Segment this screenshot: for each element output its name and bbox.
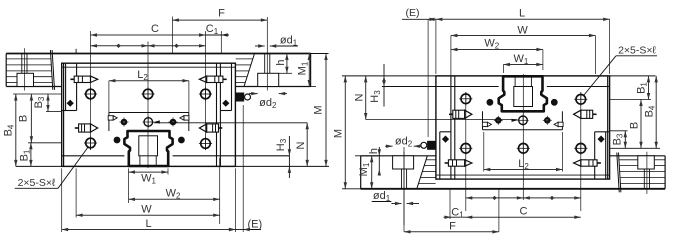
top row mounting holes bbox=[86, 89, 96, 99]
svg-text:W: W bbox=[517, 24, 528, 36]
right baseline bbox=[342, 75, 656, 77]
grease nipples (side) bbox=[74, 76, 90, 82]
dim L2 left bbox=[109, 80, 189, 82]
left pad bbox=[65, 63, 67, 110]
left view mechanical bbox=[6, 17, 310, 166]
rail left segment (side view) bbox=[664, 156, 666, 189]
dim W2 bbox=[129, 198, 220, 200]
svg-text:h: h bbox=[275, 59, 287, 65]
dim M right bbox=[344, 76, 346, 189]
baseline bbox=[16, 165, 329, 167]
right pad bottom bbox=[220, 110, 231, 112]
block bottom line (front view) bbox=[547, 86, 610, 88]
rail mounting hole (left, counterbored from below) bbox=[649, 169, 651, 189]
dim C1 bbox=[221, 33, 228, 36]
svg-text:h: h bbox=[368, 148, 380, 154]
inner recess rectangle bbox=[109, 112, 189, 114]
dim N right bbox=[365, 76, 367, 120]
svg-text:2×5-S×ℓ: 2×5-S×ℓ bbox=[18, 177, 56, 189]
end cap screws small row bbox=[121, 119, 128, 126]
end-mounted nipple right (square+circle) bbox=[236, 93, 245, 102]
dim L2 right bbox=[484, 169, 563, 171]
rail break line (left, doubled) bbox=[50, 50, 52, 90]
rail right segment (side view, with break) bbox=[361, 155, 436, 157]
dim M bbox=[325, 54, 327, 167]
svg-text:F: F bbox=[449, 220, 456, 232]
svg-text:M: M bbox=[313, 105, 325, 114]
rail right segment (side view, with break) bbox=[236, 86, 311, 88]
dim C1 right bbox=[444, 216, 466, 218]
extension lines top bbox=[90, 31, 92, 150]
dim h bbox=[286, 54, 288, 74]
break line (right) bbox=[417, 156, 428, 189]
dim W2 right bbox=[451, 49, 543, 51]
dim W bbox=[76, 214, 220, 216]
dim C right bbox=[466, 216, 581, 218]
svg-text:2×5-S×ℓ: 2×5-S×ℓ bbox=[618, 44, 656, 56]
hole centerline (left) bbox=[23, 48, 25, 90]
svg-text:(E): (E) bbox=[247, 219, 262, 231]
dim N bbox=[306, 123, 308, 167]
dim H3 bbox=[288, 136, 290, 178]
svg-text:F: F bbox=[218, 8, 225, 20]
dim B4 right bbox=[655, 76, 657, 148]
block right end internal verticals bbox=[216, 63, 218, 166]
counterbored hole (right, in section) bbox=[264, 54, 266, 74]
center small hole with leader arrow bbox=[519, 116, 528, 125]
rail break line (left, doubled) bbox=[619, 153, 621, 193]
rail shank inner lines bbox=[514, 87, 533, 107]
end cap screws small row bbox=[544, 117, 551, 124]
right view mechanical (180deg rotated copy) bbox=[361, 76, 665, 225]
dim W1 right bbox=[503, 64, 542, 66]
inner recess rectangle bbox=[483, 129, 563, 131]
dim B3 right bbox=[624, 131, 626, 149]
break line (right) bbox=[244, 54, 255, 87]
dim M1 right bbox=[371, 156, 373, 189]
dim B3 bbox=[47, 94, 49, 112]
dim L right bbox=[436, 18, 610, 20]
dim B right bbox=[640, 100, 642, 149]
grease nipples (side) bbox=[581, 160, 597, 166]
dim F bbox=[172, 19, 267, 21]
dim F right bbox=[404, 231, 499, 233]
dim W1 bbox=[129, 171, 169, 173]
right pad bottom bbox=[440, 131, 451, 133]
counterbored hole (right, in section) bbox=[406, 169, 408, 189]
retainer dots bbox=[551, 99, 558, 106]
svg-text:(E): (E) bbox=[406, 7, 420, 19]
svg-text:N: N bbox=[354, 93, 366, 101]
rail left segment (side view) bbox=[5, 54, 7, 87]
pad diamonds bbox=[598, 136, 605, 143]
dim h right bbox=[378, 147, 380, 175]
pitch row right bbox=[466, 197, 581, 199]
svg-text:M: M bbox=[333, 129, 345, 138]
dim phi-d2 bbox=[249, 93, 258, 95]
bottom row mounting holes bbox=[576, 95, 586, 105]
dim L bbox=[62, 229, 236, 231]
retainer dots bbox=[114, 137, 121, 144]
pad diamonds bbox=[67, 100, 74, 107]
dim B1 right bbox=[648, 76, 650, 100]
svg-text:C: C bbox=[151, 23, 159, 35]
svg-text:B: B bbox=[629, 122, 641, 129]
svg-text:N: N bbox=[295, 141, 307, 149]
rail mounting hole (left, counterbored from below) bbox=[21, 54, 23, 74]
rail cross-section profile (front view) bbox=[124, 131, 172, 166]
rail top edge line bbox=[361, 188, 665, 190]
top row mounting holes bbox=[576, 144, 586, 154]
left pad bbox=[605, 132, 607, 179]
svg-text:L: L bbox=[519, 8, 525, 20]
block right end internal verticals bbox=[454, 76, 456, 179]
dim C bbox=[91, 34, 206, 36]
svg-text:B: B bbox=[18, 115, 30, 122]
hole centerline (left) bbox=[646, 152, 648, 194]
dim B bbox=[30, 94, 32, 143]
svg-text:L: L bbox=[145, 218, 151, 230]
center small hole with leader arrow bbox=[144, 118, 153, 127]
dim B4 bbox=[15, 94, 17, 166]
dim M1 bbox=[308, 54, 310, 87]
right extension lines bbox=[403, 147, 405, 232]
rail cross-section profile (front view) bbox=[499, 76, 547, 111]
dim H3 right bbox=[383, 64, 385, 107]
rail top edge line bbox=[6, 53, 310, 55]
rail shank inner lines bbox=[139, 136, 158, 156]
hole pitch row bbox=[91, 45, 206, 47]
dim phi-d2 right bbox=[385, 145, 393, 147]
svg-text:C: C bbox=[520, 206, 528, 218]
dim (E) bbox=[235, 229, 243, 231]
block outer rectangle bbox=[62, 63, 236, 166]
svg-text:W: W bbox=[141, 204, 152, 216]
end-mounted nipple right (square+circle) bbox=[427, 141, 436, 150]
block outer rectangle bbox=[436, 76, 610, 179]
dim B1 bbox=[30, 143, 32, 167]
dim phi-d1 bbox=[255, 45, 265, 47]
dim W right bbox=[451, 35, 596, 37]
block bottom line (front view) bbox=[62, 155, 125, 157]
bottom row mounting holes bbox=[86, 138, 96, 148]
